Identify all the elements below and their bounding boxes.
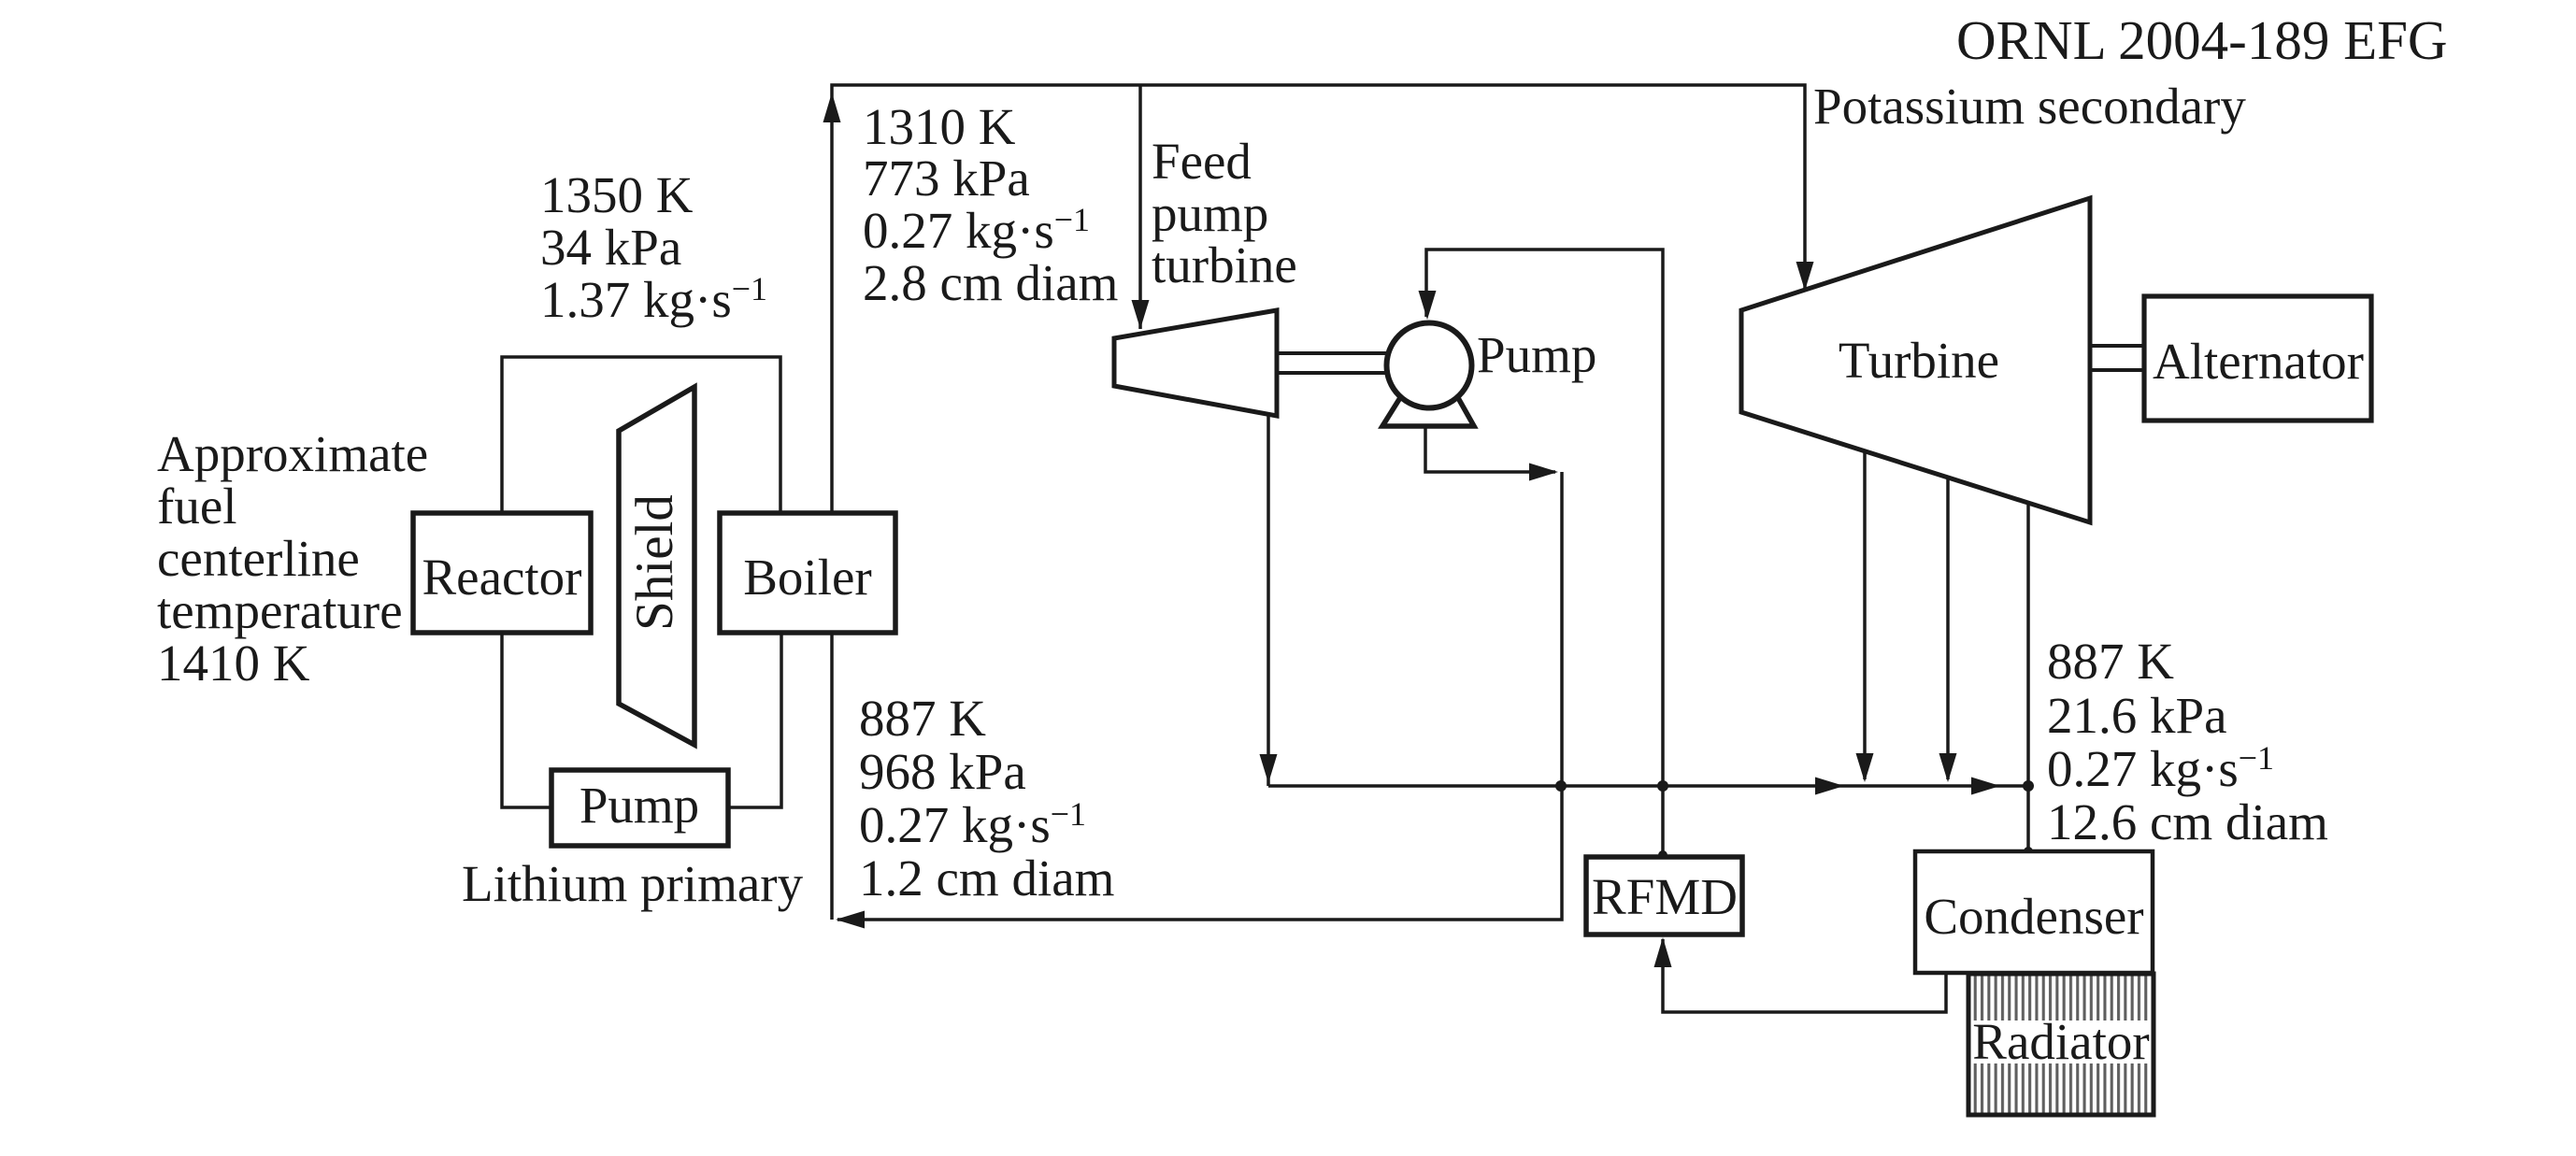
boiler box	[720, 513, 895, 633]
svg-text:1.2 cm diam: 1.2 cm diam	[859, 849, 1114, 906]
svg-text:0.27 kg·s−1: 0.27 kg·s−1	[863, 201, 1090, 259]
wire: condensate header to condenser	[1268, 784, 2028, 788]
svg-text:1.37 kg·s−1: 1.37 kg·s−1	[540, 270, 767, 328]
svg-text:34 kPa: 34 kPa	[540, 219, 681, 276]
shield	[619, 387, 694, 745]
svg-text:0.27 kg·s−1: 0.27 kg·s−1	[2047, 739, 2274, 797]
wire: turbine to alternator shaft	[2090, 344, 2144, 348]
alternator box	[2144, 296, 2371, 421]
wire: turbine bleed 1	[1863, 451, 1867, 779]
lithium pump box	[551, 770, 728, 846]
junction dot: header into exhaust line	[2023, 780, 2034, 792]
svg-text:Approximate: Approximate	[157, 425, 428, 482]
svg-text:887 K: 887 K	[859, 690, 986, 747]
arrowhead: header flow right 1	[1815, 778, 1844, 795]
reactor box	[413, 513, 591, 633]
svg-text:21.6 kPa: 21.6 kPa	[2047, 687, 2227, 744]
svg-text:Boiler: Boiler	[743, 549, 871, 606]
svg-text:pump: pump	[1152, 185, 1268, 242]
svg-text:887 K: 887 K	[2047, 633, 2174, 690]
svg-text:773 kPa: 773 kPa	[863, 150, 1030, 207]
feed pump turbine body	[1114, 310, 1277, 416]
svg-text:Feed: Feed	[1152, 133, 1252, 190]
junction dot: exhaust at condenser top	[2024, 847, 2033, 856]
svg-text:Shield: Shield	[625, 494, 684, 631]
svg-text:Reactor: Reactor	[422, 549, 581, 606]
radiator label band	[1971, 1020, 2151, 1063]
svg-text:Turbine: Turbine	[1839, 332, 1999, 389]
svg-text:Condenser: Condenser	[1924, 888, 2143, 945]
svg-text:12.6 cm diam: 12.6 cm diam	[2047, 793, 2328, 850]
svg-text:RFMD: RFMD	[1592, 868, 1738, 925]
svg-text:Pump: Pump	[1477, 326, 1596, 383]
wire: feed pump turbine shaft	[1277, 351, 1387, 355]
arrowhead: bleed 2 down	[1939, 753, 1957, 782]
svg-text:2.8 cm diam: 2.8 cm diam	[863, 254, 1118, 311]
arrowhead: header flow right 2	[1971, 778, 2000, 795]
wire: lithium loop pump to boiler	[728, 633, 781, 807]
svg-text:ORNL 2004-189 EFG: ORNL 2004-189 EFG	[1956, 9, 2448, 71]
arrowhead: up into RFMD	[1654, 937, 1672, 967]
svg-text:temperature: temperature	[157, 582, 403, 639]
svg-text:Radiator: Radiator	[1972, 1013, 2149, 1070]
svg-text:1350 K: 1350 K	[540, 166, 694, 223]
wire: pump discharge line	[1425, 422, 1555, 472]
arrowhead: pump discharge right	[1529, 464, 1558, 481]
arrowhead: up into top header	[823, 93, 841, 122]
wire: lithium loop reactor to pump	[502, 633, 551, 807]
wire: condensate return line (RFMD discharge to boiler)	[837, 472, 1562, 920]
arrowhead: down into pump	[1419, 291, 1437, 320]
wire: pump suction from RFMD	[1426, 250, 1663, 857]
svg-text:968 kPa: 968 kPa	[859, 743, 1026, 800]
wire: feed pump turbine supply branch	[1138, 85, 1142, 329]
wire: potassium return into boiler	[830, 633, 834, 920]
svg-text:Lithium primary: Lithium primary	[462, 855, 804, 912]
wire: feed pump turbine drain	[1267, 416, 1270, 786]
arrowhead: feed pump turbine drain down	[1260, 754, 1278, 783]
arrowhead: down onto feed pump turbine	[1132, 300, 1150, 329]
wire: top potassium vapor header (boiler to turbine)	[832, 85, 1805, 513]
svg-text:centerline: centerline	[157, 530, 360, 587]
junction dot: return line / header crossing	[1555, 780, 1567, 792]
svg-text:0.27 kg·s−1: 0.27 kg·s−1	[859, 795, 1086, 853]
RFMD box	[1586, 857, 1742, 935]
svg-text:1310 K: 1310 K	[863, 98, 1016, 155]
svg-text:Alternator: Alternator	[2153, 333, 2364, 390]
arrowhead: potassium return left into boiler leg	[836, 911, 865, 929]
wire: turbine exhaust to condenser	[2026, 503, 2030, 851]
arrowhead: bleed 1 down	[1856, 753, 1874, 782]
svg-text:fuel: fuel	[157, 478, 237, 535]
svg-text:Potassium secondary: Potassium secondary	[1813, 78, 2246, 135]
arrowhead: down onto turbine inlet	[1796, 262, 1814, 291]
svg-text:turbine: turbine	[1152, 236, 1297, 293]
junction dot: suction line / header crossing	[1657, 780, 1668, 792]
svg-text:1410 K: 1410 K	[157, 635, 310, 692]
svg-text:Pump: Pump	[580, 777, 699, 834]
junction dot: suction line at RFMD top	[1658, 850, 1667, 860]
condenser box	[1915, 851, 2153, 973]
wire: lithium loop top (reactor to boiler)	[502, 357, 780, 513]
pump circle	[1387, 323, 1472, 408]
wire: condenser outlet to RFMD	[1663, 939, 1946, 1012]
turbine body	[1741, 198, 2090, 522]
radiator (hatched)	[1968, 974, 2154, 1115]
pump stand	[1382, 396, 1474, 426]
wire: turbine bleed 2	[1946, 478, 1950, 779]
